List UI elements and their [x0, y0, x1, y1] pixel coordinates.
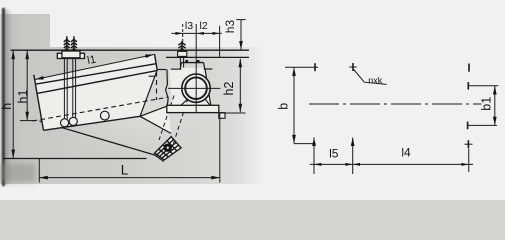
svg-text:l4: l4 [401, 146, 411, 160]
svg-text:b1: b1 [479, 97, 493, 111]
svg-text:l5: l5 [329, 147, 339, 161]
svg-text:h3: h3 [223, 20, 237, 34]
svg-text:h: h [0, 103, 14, 110]
svg-text:h1: h1 [16, 90, 30, 104]
svg-text:l2: l2 [200, 20, 208, 32]
svg-text:nxk: nxk [368, 76, 383, 86]
svg-text:L: L [121, 163, 129, 178]
svg-text:h2: h2 [222, 82, 236, 96]
svg-text:b: b [277, 103, 291, 110]
svg-text:l1: l1 [86, 54, 97, 67]
svg-text:l3: l3 [185, 20, 193, 32]
